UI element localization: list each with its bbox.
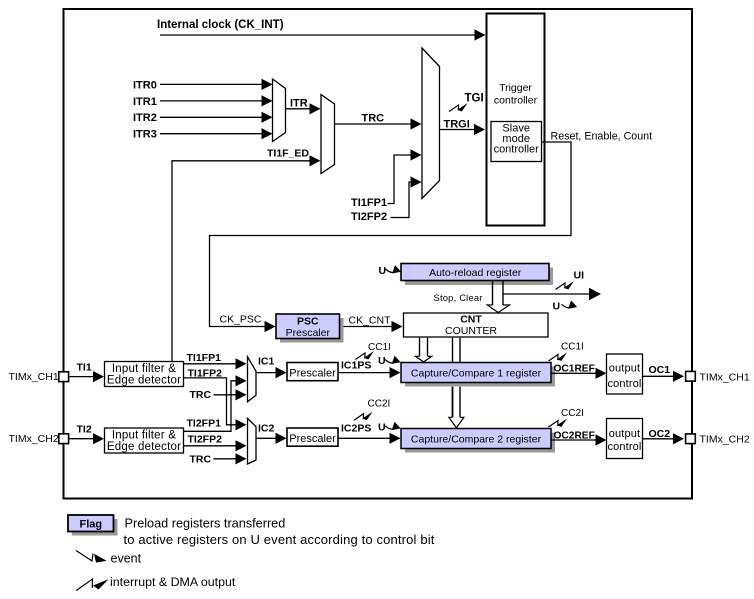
svg-text:CC2I: CC2I — [368, 399, 391, 410]
wire TI1 pin to input filter — [69, 371, 104, 382]
wire ITR2 — [160, 112, 273, 123]
svg-text:Prescaler: Prescaler — [286, 327, 331, 339]
pin TIMx_CH2 (left) — [9, 433, 69, 445]
wire IC1 to prescaler — [256, 367, 287, 378]
svg-text:U: U — [553, 300, 561, 312]
svg-text:Capture/Compare 1 register: Capture/Compare 1 register — [411, 368, 542, 380]
mux TRGI select — [422, 48, 440, 199]
wire IC1PS to CC1 register — [338, 367, 401, 378]
svg-text:TIMx_CH2: TIMx_CH2 — [9, 433, 59, 445]
svg-text:control: control — [607, 441, 641, 453]
svg-text:IC1: IC1 — [258, 356, 275, 368]
interrupt glyph CC2I compare — [549, 419, 568, 428]
svg-text:TI2FP1: TI2FP1 — [187, 418, 222, 430]
svg-text:to active registers on U event: to active registers on U event according… — [124, 532, 435, 547]
wire CK_CNT PSC to CNT — [340, 321, 403, 332]
svg-text:Capture/Compare 2 register: Capture/Compare 2 register — [411, 434, 542, 446]
wire CK_INT to trigger controller — [160, 29, 486, 40]
wire OC1 to pin — [643, 371, 685, 382]
svg-text:TI1FP1: TI1FP1 — [187, 352, 222, 364]
mux TRC select — [321, 95, 335, 174]
svg-text:interrupt & DMA output: interrupt & DMA output — [110, 575, 236, 589]
svg-text:TRGI: TRGI — [444, 119, 470, 131]
svg-text:CC2I: CC2I — [561, 408, 584, 419]
wire TI2FP2 to TRGI mux — [391, 176, 422, 217]
legend text preload — [124, 517, 435, 547]
wire TI2 pin to input filter — [69, 433, 104, 444]
outer border — [64, 9, 693, 499]
wire OC1REF to output control 1 — [551, 368, 607, 379]
svg-text:Prescaler: Prescaler — [289, 433, 336, 445]
svg-text:OC1: OC1 — [649, 364, 671, 376]
svg-text:ITR2: ITR2 — [133, 112, 157, 124]
svg-text:TI2FP2: TI2FP2 — [188, 434, 223, 446]
svg-text:control: control — [607, 378, 641, 390]
wire OC2 to pin — [643, 433, 685, 444]
interrupt glyph TGI — [449, 103, 468, 112]
wire TRC to TRGI mux — [335, 118, 422, 129]
wire TRC to IC2 mux — [214, 453, 247, 464]
svg-text:controller: controller — [494, 144, 540, 156]
event glyph U at event line — [562, 300, 578, 308]
mux IC2 select — [248, 418, 257, 464]
prescaler IC2 — [287, 428, 338, 446]
wire TI1FP1 to IC1 mux — [184, 358, 247, 369]
svg-text:Prescaler: Prescaler — [289, 367, 336, 379]
event glyph U at ARR — [386, 265, 402, 273]
wire TI1FP2 to IC2 mux — [184, 378, 247, 431]
wire TRGI to trigger controller — [440, 124, 486, 135]
event glyph U at CC1 — [385, 356, 401, 364]
interrupt glyph CC1I capture — [356, 351, 375, 360]
svg-text:Preload registers transferred: Preload registers transferred — [125, 517, 286, 531]
input filter and edge detector CH1 — [105, 362, 184, 387]
pin TIMx_CH1 (right) — [686, 371, 750, 383]
svg-text:TI1F_ED: TI1F_ED — [267, 147, 309, 159]
svg-text:UI: UI — [574, 270, 585, 282]
svg-text:Input filter &: Input filter & — [112, 430, 176, 442]
counter CNT — [404, 313, 549, 337]
mux ITR select — [273, 79, 286, 142]
input filter and edge detector CH2 — [105, 428, 184, 453]
wire slave mode controller to PSC (CK_PSC) — [210, 142, 572, 332]
wire TI1FP1 to TRGI mux — [388, 149, 422, 203]
svg-text:output: output — [609, 362, 640, 374]
event glyph U at CC2 — [385, 422, 401, 430]
svg-text:CK_CNT: CK_CNT — [349, 315, 392, 327]
svg-text:TI1FP1: TI1FP1 — [351, 197, 387, 209]
svg-text:IC2PS: IC2PS — [341, 423, 371, 435]
svg-text:TIMx_CH1: TIMx_CH1 — [9, 371, 59, 383]
legend event glyph — [76, 551, 107, 563]
svg-text:ITR: ITR — [290, 97, 308, 109]
output control 1 — [607, 354, 643, 394]
wire CNT to CC1 (open arrow) — [415, 338, 432, 362]
svg-text:TRC: TRC — [362, 113, 385, 125]
output control 2 — [607, 419, 643, 459]
svg-text:COUNTER: COUNTER — [445, 325, 497, 337]
svg-text:TIMx_CH1: TIMx_CH1 — [700, 371, 750, 383]
wire ITR1 — [160, 95, 273, 106]
legend Flag box — [68, 515, 118, 536]
prescaler PSC — [276, 314, 344, 343]
svg-text:TRC: TRC — [190, 389, 212, 401]
svg-text:U: U — [379, 265, 387, 277]
wire CNT to CC2 lower segment (open arrow) — [449, 387, 464, 428]
svg-text:Trigger: Trigger — [499, 82, 532, 94]
wire OC2REF to output control 2 — [551, 434, 607, 445]
interrupt glyph UI — [556, 281, 575, 290]
wire TRC to IC1 mux — [214, 389, 247, 400]
slave mode controller — [491, 122, 542, 162]
svg-text:output: output — [609, 428, 640, 440]
svg-text:CK_PSC: CK_PSC — [220, 314, 262, 326]
pin TIMx_CH2 (right) — [686, 434, 750, 446]
svg-text:ITR3: ITR3 — [133, 129, 157, 141]
svg-text:Stop, Clear: Stop, Clear — [434, 292, 483, 303]
prescaler IC1 — [287, 363, 338, 381]
wire U event line — [503, 288, 601, 300]
svg-text:CNT: CNT — [460, 314, 482, 326]
svg-text:TI2FP2: TI2FP2 — [351, 211, 387, 223]
svg-text:CC1I: CC1I — [368, 342, 391, 353]
svg-text:IC2: IC2 — [258, 422, 275, 434]
wire TI1F_ED from input filter to TRC mux — [172, 155, 321, 361]
svg-text:Auto-reload register: Auto-reload register — [429, 267, 522, 279]
svg-text:CC1I: CC1I — [561, 342, 584, 353]
capture/compare 2 register CC2 — [401, 429, 555, 453]
svg-text:ITR0: ITR0 — [133, 79, 157, 91]
auto-reload register ARR — [401, 264, 553, 286]
mux IC1 select — [248, 357, 257, 402]
svg-text:TIMx_CH2: TIMx_CH2 — [700, 434, 750, 446]
wire ITR3 — [160, 128, 273, 139]
svg-text:Edge detector: Edge detector — [107, 441, 181, 453]
svg-text:TI1: TI1 — [77, 361, 92, 373]
wire IC2PS to CC2 register — [338, 433, 401, 444]
wire ARR to CNT (preload transfer open arrow) — [487, 281, 509, 313]
svg-text:event: event — [111, 551, 142, 565]
svg-text:Input filter &: Input filter & — [112, 363, 176, 375]
svg-text:OC2: OC2 — [649, 428, 671, 440]
wire ITR to TRC mux — [286, 103, 321, 114]
svg-text:controller: controller — [494, 95, 538, 107]
svg-text:U: U — [378, 422, 386, 434]
interrupt glyph CC1I compare — [549, 353, 568, 362]
svg-text:Reset, Enable, Count: Reset, Enable, Count — [551, 131, 653, 143]
svg-text:TRC: TRC — [190, 454, 212, 466]
wire ITR0 — [160, 79, 273, 90]
pin TIMx_CH1 (left) — [9, 371, 69, 383]
wire IC2 to prescaler — [256, 433, 287, 444]
trigger controller U_TRG — [487, 14, 545, 226]
svg-text:ITR1: ITR1 — [133, 96, 157, 108]
svg-text:U: U — [378, 355, 386, 367]
legend interrupt glyph — [76, 579, 108, 591]
wire TI2FP1 to IC1 mux — [184, 375, 247, 431]
svg-text:PSC: PSC — [297, 316, 319, 328]
svg-text:Edge detector: Edge detector — [107, 374, 181, 386]
svg-text:TI2: TI2 — [77, 424, 92, 436]
svg-text:Flag: Flag — [79, 519, 102, 531]
interrupt glyph CC2I capture — [354, 412, 373, 421]
svg-text:TGI: TGI — [465, 93, 484, 105]
svg-text:IC1PS: IC1PS — [341, 359, 371, 371]
svg-text:Internal clock (CK_INT): Internal clock (CK_INT) — [157, 19, 284, 31]
wire CNT to CC2 upper segment — [453, 338, 461, 362]
wire TI2FP2 to IC2 mux — [184, 440, 247, 451]
capture/compare 1 register CC1 — [401, 363, 555, 387]
